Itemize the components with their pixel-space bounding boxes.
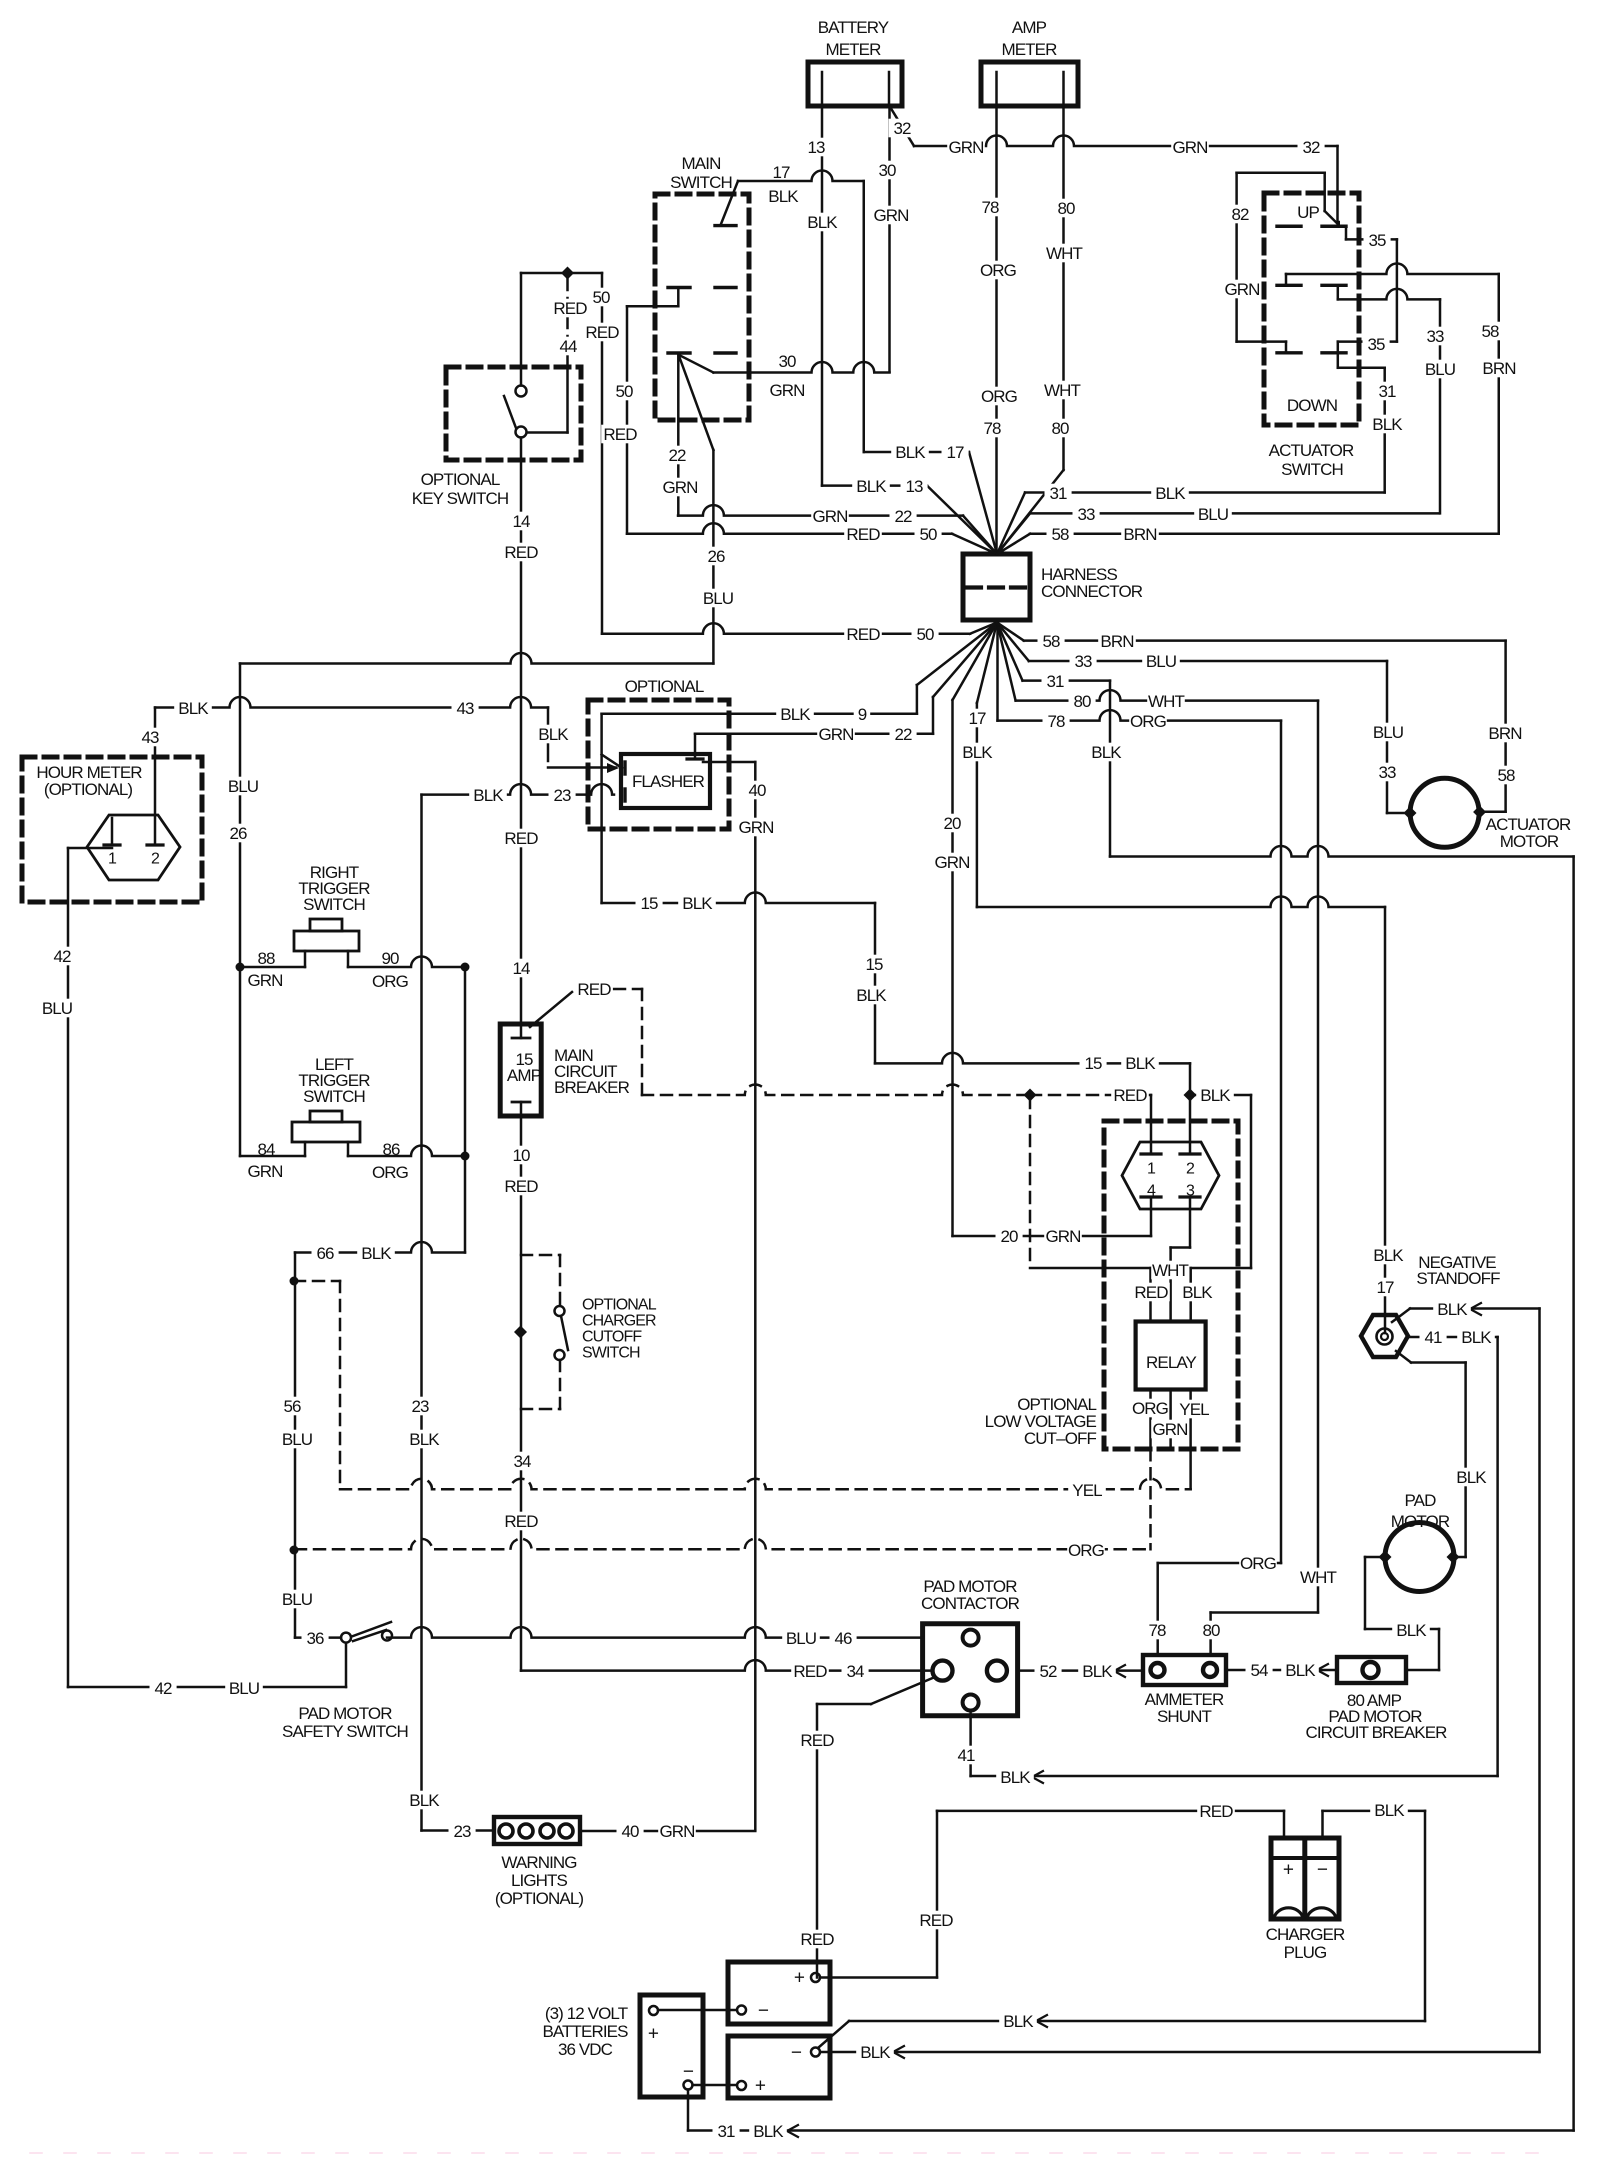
svg-text:CONNECTOR: CONNECTOR <box>1041 582 1143 601</box>
svg-text:22: 22 <box>668 446 686 465</box>
svg-text:PAD MOTOR: PAD MOTOR <box>298 1704 392 1723</box>
svg-text:32: 32 <box>1302 138 1320 157</box>
svg-text:UP: UP <box>1297 203 1319 222</box>
svg-text:BLU: BLU <box>282 1590 312 1609</box>
svg-text:BLK: BLK <box>1155 484 1186 503</box>
svg-text:78: 78 <box>1047 712 1065 731</box>
svg-text:RED: RED <box>1134 1283 1168 1302</box>
svg-text:14: 14 <box>512 512 530 531</box>
svg-text:BLK: BLK <box>1437 1300 1468 1319</box>
svg-text:AMP: AMP <box>507 1066 542 1085</box>
svg-text:54: 54 <box>1250 1661 1268 1680</box>
svg-text:BLK: BLK <box>1374 1801 1405 1820</box>
svg-text:BLK: BLK <box>1003 2012 1034 2031</box>
svg-text:41: 41 <box>1424 1328 1442 1347</box>
svg-text:METER: METER <box>1001 40 1057 59</box>
svg-text:78: 78 <box>981 198 999 217</box>
svg-text:56: 56 <box>283 1397 301 1416</box>
svg-text:BLK: BLK <box>768 187 799 206</box>
svg-text:RED: RED <box>577 980 611 999</box>
svg-text:30: 30 <box>878 161 896 180</box>
svg-text:−: − <box>791 2043 802 2064</box>
svg-text:33: 33 <box>1426 327 1444 346</box>
svg-text:78: 78 <box>983 419 1001 438</box>
svg-text:46: 46 <box>834 1629 852 1648</box>
svg-text:RED: RED <box>585 323 619 342</box>
svg-text:14: 14 <box>512 959 530 978</box>
svg-text:2: 2 <box>1186 1161 1195 1178</box>
svg-text:STANDOFF: STANDOFF <box>1416 1269 1500 1288</box>
svg-text:(OPTIONAL): (OPTIONAL) <box>44 780 133 799</box>
svg-text:YEL: YEL <box>1179 1400 1209 1419</box>
svg-text:BLU: BLU <box>786 1629 816 1648</box>
svg-text:RED: RED <box>603 425 637 444</box>
svg-text:BATTERY: BATTERY <box>818 18 889 37</box>
svg-text:OPTIONAL: OPTIONAL <box>582 1297 657 1314</box>
svg-text:13: 13 <box>905 477 923 496</box>
svg-text:SWITCH: SWITCH <box>303 1087 365 1106</box>
svg-text:RED: RED <box>504 829 538 848</box>
svg-text:22: 22 <box>894 725 912 744</box>
svg-text:RED: RED <box>800 1930 834 1949</box>
svg-text:40: 40 <box>621 1822 639 1841</box>
svg-text:ORG: ORG <box>980 261 1016 280</box>
svg-text:BLK: BLK <box>361 1244 392 1263</box>
svg-text:32: 32 <box>893 119 911 138</box>
svg-text:BRN: BRN <box>1482 359 1515 378</box>
svg-text:(OPTIONAL): (OPTIONAL) <box>495 1889 584 1908</box>
svg-text:CHARGER: CHARGER <box>582 1313 656 1330</box>
svg-text:BLU: BLU <box>1373 723 1403 742</box>
svg-text:WHT: WHT <box>1044 381 1081 400</box>
svg-text:BLK: BLK <box>178 699 209 718</box>
svg-text:BLK: BLK <box>856 986 887 1005</box>
svg-text:23: 23 <box>453 1822 471 1841</box>
svg-text:4: 4 <box>1147 1183 1156 1200</box>
svg-text:31: 31 <box>717 2122 735 2141</box>
svg-text:WHT: WHT <box>1148 692 1185 711</box>
svg-text:BLK: BLK <box>1182 1283 1213 1302</box>
svg-text:84: 84 <box>257 1140 275 1159</box>
svg-text:SHUNT: SHUNT <box>1157 1707 1212 1726</box>
svg-text:82: 82 <box>1231 205 1249 224</box>
svg-text:36: 36 <box>306 1629 324 1648</box>
svg-text:BLU: BLU <box>42 999 72 1018</box>
svg-text:17: 17 <box>968 709 986 728</box>
svg-text:BLK: BLK <box>473 786 504 805</box>
svg-text:RELAY: RELAY <box>1146 1353 1197 1372</box>
svg-text:20: 20 <box>1000 1227 1018 1246</box>
svg-text:50: 50 <box>592 288 610 307</box>
svg-text:RED: RED <box>793 1662 827 1681</box>
svg-text:BLK: BLK <box>1082 1662 1113 1681</box>
svg-text:20: 20 <box>943 814 961 833</box>
svg-text:BLU: BLU <box>228 777 258 796</box>
svg-text:MOTOR: MOTOR <box>1391 1512 1450 1531</box>
svg-text:9: 9 <box>858 705 867 724</box>
svg-text:BLU: BLU <box>229 1679 259 1698</box>
svg-text:−: − <box>683 2062 694 2083</box>
svg-text:52: 52 <box>1039 1662 1057 1681</box>
svg-text:RED: RED <box>553 299 587 318</box>
svg-text:SWITCH: SWITCH <box>670 173 732 192</box>
svg-text:BLK: BLK <box>1091 743 1122 762</box>
svg-text:CIRCUIT BREAKER: CIRCUIT BREAKER <box>1305 1723 1447 1742</box>
svg-text:SWITCH: SWITCH <box>303 895 365 914</box>
svg-text:CUTOFF: CUTOFF <box>582 1329 642 1346</box>
svg-text:78: 78 <box>1148 1621 1166 1640</box>
svg-text:−: − <box>758 2001 769 2022</box>
svg-text:BLU: BLU <box>1198 505 1228 524</box>
svg-text:BLK: BLK <box>895 443 926 462</box>
svg-text:RED: RED <box>504 1177 538 1196</box>
svg-text:30: 30 <box>778 352 796 371</box>
svg-text:BLK: BLK <box>1000 1768 1031 1787</box>
svg-text:2: 2 <box>151 851 160 868</box>
svg-text:YEL: YEL <box>1072 1481 1102 1500</box>
svg-text:BLU: BLU <box>703 589 733 608</box>
svg-text:GRN: GRN <box>247 971 282 990</box>
svg-text:41: 41 <box>957 1746 975 1765</box>
svg-text:OPTIONAL: OPTIONAL <box>625 677 704 696</box>
svg-text:GRN: GRN <box>1045 1227 1080 1246</box>
svg-text:GRN: GRN <box>662 478 697 497</box>
svg-text:34: 34 <box>513 1452 531 1471</box>
svg-text:BLU: BLU <box>282 1430 312 1449</box>
svg-text:BLK: BLK <box>856 477 887 496</box>
svg-text:RED: RED <box>800 1731 834 1750</box>
svg-text:90: 90 <box>381 949 399 968</box>
svg-text:BLK: BLK <box>538 725 569 744</box>
svg-text:BLK: BLK <box>409 1430 440 1449</box>
svg-text:WARNING: WARNING <box>501 1853 576 1872</box>
svg-text:80: 80 <box>1051 419 1069 438</box>
svg-text:GRN: GRN <box>812 507 847 526</box>
svg-text:LIGHTS: LIGHTS <box>511 1871 568 1890</box>
svg-text:(3) 12 VOLT: (3) 12 VOLT <box>545 2004 628 2023</box>
svg-text:50: 50 <box>919 525 937 544</box>
svg-text:BLK: BLK <box>1456 1468 1487 1487</box>
svg-text:DOWN: DOWN <box>1287 396 1337 415</box>
svg-text:CUT–OFF: CUT–OFF <box>1024 1429 1097 1448</box>
svg-text:BLK: BLK <box>1285 1661 1316 1680</box>
svg-text:17: 17 <box>772 163 790 182</box>
svg-text:+: + <box>794 1968 805 1989</box>
svg-text:BLK: BLK <box>780 705 811 724</box>
svg-text:GRN: GRN <box>934 853 969 872</box>
svg-text:ORG: ORG <box>1068 1541 1104 1560</box>
svg-text:BLK: BLK <box>409 1791 440 1810</box>
svg-text:ORG: ORG <box>1130 712 1166 731</box>
svg-text:31: 31 <box>1046 672 1064 691</box>
svg-text:CHARGER: CHARGER <box>1266 1925 1345 1944</box>
svg-text:RED: RED <box>919 1911 953 1930</box>
svg-text:PLUG: PLUG <box>1284 1943 1327 1962</box>
svg-text:BLK: BLK <box>1373 1246 1404 1265</box>
svg-text:BLK: BLK <box>1200 1086 1231 1105</box>
svg-text:METER: METER <box>825 40 881 59</box>
svg-text:BLK: BLK <box>753 2122 784 2141</box>
svg-text:66: 66 <box>316 1244 334 1263</box>
svg-text:BATTERIES: BATTERIES <box>542 2022 628 2041</box>
svg-text:FLASHER: FLASHER <box>632 772 705 791</box>
svg-text:AMP: AMP <box>1012 18 1047 37</box>
svg-text:10: 10 <box>512 1146 530 1165</box>
svg-text:80: 80 <box>1202 1621 1220 1640</box>
svg-text:80: 80 <box>1057 199 1075 218</box>
svg-text:33: 33 <box>1077 505 1095 524</box>
svg-text:BLK: BLK <box>682 894 713 913</box>
svg-text:15: 15 <box>865 955 883 974</box>
svg-text:33: 33 <box>1074 652 1092 671</box>
svg-text:BLK: BLK <box>1461 1328 1492 1347</box>
svg-text:WHT: WHT <box>1300 1568 1337 1587</box>
svg-text:GRN: GRN <box>873 206 908 225</box>
svg-text:ORG: ORG <box>372 972 408 991</box>
svg-text:26: 26 <box>229 824 247 843</box>
svg-text:BRN: BRN <box>1100 632 1133 651</box>
svg-text:GRN: GRN <box>1152 1420 1187 1439</box>
svg-text:40: 40 <box>748 781 766 800</box>
svg-text:GRN: GRN <box>769 381 804 400</box>
svg-text:BLK: BLK <box>1125 1054 1156 1073</box>
svg-text:RED: RED <box>1199 1802 1233 1821</box>
svg-text:RED: RED <box>504 543 538 562</box>
svg-text:BLK: BLK <box>860 2043 891 2062</box>
svg-text:43: 43 <box>141 728 159 747</box>
svg-text:GRN: GRN <box>1224 280 1259 299</box>
svg-text:22: 22 <box>894 507 912 526</box>
svg-text:88: 88 <box>257 949 275 968</box>
svg-text:35: 35 <box>1368 231 1386 250</box>
svg-text:33: 33 <box>1378 763 1396 782</box>
svg-text:PAD: PAD <box>1405 1491 1437 1510</box>
svg-text:GRN: GRN <box>247 1162 282 1181</box>
svg-text:WHT: WHT <box>1046 244 1083 263</box>
svg-text:GRN: GRN <box>738 818 773 837</box>
svg-text:BLK: BLK <box>1396 1621 1427 1640</box>
svg-text:BREAKER: BREAKER <box>554 1078 630 1097</box>
svg-text:35: 35 <box>1367 335 1385 354</box>
svg-text:50: 50 <box>916 625 934 644</box>
svg-text:RED: RED <box>1113 1086 1147 1105</box>
svg-text:58: 58 <box>1497 766 1515 785</box>
svg-text:ORG: ORG <box>1240 1554 1276 1573</box>
svg-text:BLU: BLU <box>1425 360 1455 379</box>
svg-text:MOTOR: MOTOR <box>1500 832 1559 851</box>
svg-text:58: 58 <box>1481 322 1499 341</box>
svg-text:BLK: BLK <box>962 743 993 762</box>
svg-text:15: 15 <box>640 894 658 913</box>
svg-text:58: 58 <box>1051 525 1069 544</box>
svg-text:23: 23 <box>411 1397 429 1416</box>
svg-text:BLK: BLK <box>1372 415 1403 434</box>
svg-text:26: 26 <box>707 547 725 566</box>
svg-text:80: 80 <box>1073 692 1091 711</box>
svg-text:BLU: BLU <box>1146 652 1176 671</box>
svg-text:GRN: GRN <box>1172 138 1207 157</box>
svg-text:86: 86 <box>382 1140 400 1159</box>
svg-text:MAIN: MAIN <box>682 154 721 173</box>
svg-text:ORG: ORG <box>1132 1399 1168 1418</box>
svg-text:WHT: WHT <box>1152 1261 1189 1280</box>
svg-text:−: − <box>1317 1860 1328 1881</box>
svg-text:58: 58 <box>1042 632 1060 651</box>
svg-text:36 VDC: 36 VDC <box>558 2040 613 2059</box>
svg-text:BRN: BRN <box>1488 724 1521 743</box>
svg-text:RED: RED <box>846 525 880 544</box>
svg-text:23: 23 <box>553 786 571 805</box>
svg-text:+: + <box>755 2076 766 2097</box>
svg-text:GRN: GRN <box>818 725 853 744</box>
svg-text:34: 34 <box>846 1662 864 1681</box>
svg-text:SWITCH: SWITCH <box>582 1345 640 1362</box>
svg-text:ACTUATOR: ACTUATOR <box>1269 441 1354 460</box>
svg-text:50: 50 <box>615 382 633 401</box>
svg-text:13: 13 <box>807 138 825 157</box>
svg-text:+: + <box>1283 1860 1294 1881</box>
svg-text:ORG: ORG <box>981 387 1017 406</box>
svg-text:1: 1 <box>1147 1161 1156 1178</box>
svg-text:1: 1 <box>108 851 117 868</box>
svg-text:42: 42 <box>154 1679 172 1698</box>
svg-text:17: 17 <box>946 443 964 462</box>
svg-text:SAFETY SWITCH: SAFETY SWITCH <box>282 1722 408 1741</box>
svg-text:BLK: BLK <box>807 213 838 232</box>
svg-text:OPTIONAL: OPTIONAL <box>421 470 500 489</box>
svg-text:KEY SWITCH: KEY SWITCH <box>412 489 508 508</box>
svg-text:43: 43 <box>456 699 474 718</box>
svg-text:17: 17 <box>1376 1278 1394 1297</box>
svg-text:15: 15 <box>1084 1054 1102 1073</box>
svg-text:31: 31 <box>1049 484 1067 503</box>
svg-text:44: 44 <box>559 337 577 356</box>
svg-text:3: 3 <box>1186 1183 1195 1200</box>
svg-text:RED: RED <box>846 625 880 644</box>
svg-text:BRN: BRN <box>1123 525 1156 544</box>
svg-text:42: 42 <box>53 947 71 966</box>
svg-text:+: + <box>648 2024 659 2045</box>
svg-text:ORG: ORG <box>372 1163 408 1182</box>
svg-text:CONTACTOR: CONTACTOR <box>921 1594 1020 1613</box>
svg-text:SWITCH: SWITCH <box>1281 460 1343 479</box>
svg-text:RED: RED <box>504 1512 538 1531</box>
svg-text:GRN: GRN <box>948 138 983 157</box>
svg-text:GRN: GRN <box>659 1822 694 1841</box>
svg-text:31: 31 <box>1378 382 1396 401</box>
